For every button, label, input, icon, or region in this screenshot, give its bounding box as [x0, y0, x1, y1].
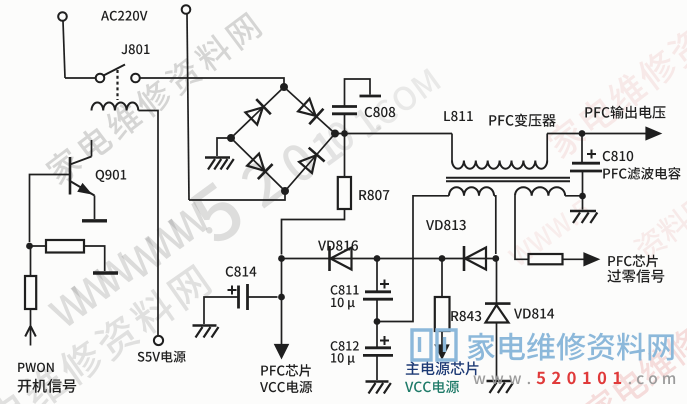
label Q901 [96, 170, 127, 182]
diode VD814 [485, 259, 511, 380]
capacitor C808 [332, 79, 381, 134]
label C810 [603, 151, 633, 161]
wire PFC output [582, 133, 647, 135]
bridge frame [231, 87, 335, 191]
label VD816 [318, 240, 358, 250]
resistor R807 [282, 134, 352, 255]
label VCC电源 (PFC) [260, 381, 312, 394]
node C814 [278, 294, 285, 301]
label J801 [121, 44, 149, 54]
diode VD816 [330, 246, 352, 271]
diode VD813 [464, 246, 486, 271]
terminal AC input 1 [58, 12, 67, 78]
terminal S5V [154, 336, 163, 345]
node base divider [26, 243, 33, 250]
transistor Q901 [70, 140, 95, 219]
watermark pink diagonal right edge [631, 189, 687, 263]
ground below C810 [570, 211, 597, 223]
node bridge top [280, 83, 288, 91]
capacitor C811 [363, 259, 393, 322]
label 过零信号 [607, 269, 664, 282]
node C811-C812 [374, 318, 381, 325]
watermark blue icon [412, 330, 456, 360]
watermark pink www mid [507, 199, 592, 268]
label R807 [359, 190, 389, 200]
resistor PWON vertical [25, 246, 36, 326]
label 10u (C812) [331, 353, 355, 365]
node bridge left [227, 134, 235, 142]
node bridge right [331, 130, 339, 138]
label PFC芯片 (zero-cross) [608, 255, 658, 268]
ground below emitter [82, 219, 107, 222]
watermark blue 家电维修资料网 [468, 333, 674, 361]
label L811 [444, 111, 473, 121]
watermark gray diagonal text 1 [42, 10, 263, 187]
label C814 [226, 266, 257, 276]
label S5V电源 [138, 351, 186, 363]
label C811 [331, 285, 359, 295]
terminal AC input 2 [182, 5, 191, 200]
label C812 [331, 341, 359, 351]
label PFC芯片 (VCC) [261, 364, 311, 377]
transformer right secondary [515, 187, 583, 259]
watermark gray diagonal text 3 [0, 262, 213, 409]
label PFC滤波电容 [603, 167, 680, 180]
wire PFC VCC down [281, 259, 283, 345]
wire C810 to ground [582, 196, 584, 210]
label R843 [451, 311, 481, 321]
label PFC输出电压 [585, 106, 665, 119]
node C811 top [374, 255, 381, 262]
node VCC left [278, 255, 285, 262]
ground bridge AC side [205, 158, 234, 170]
resistor R843 [435, 259, 450, 346]
relay coil J801 [92, 103, 159, 336]
watermark pink diagonal bottom right [580, 263, 687, 409]
inductor L811 primary [452, 134, 582, 169]
resistor base-h [30, 240, 105, 271]
label VD814 [514, 308, 554, 318]
label PWON [18, 363, 54, 373]
node PFC output [579, 130, 586, 137]
transformer core [446, 178, 570, 181]
wire VCC rail [282, 258, 496, 260]
wire main DC line [335, 133, 452, 135]
label AC220V [101, 11, 148, 21]
node R843 top [439, 255, 446, 262]
ground below h-resistor [93, 271, 118, 274]
arrow PFC VCC [276, 345, 288, 357]
node VD814 top [492, 255, 499, 262]
watermark gray diagonal text 2 [47, 68, 441, 329]
wire AC2 to bridge bottom [189, 191, 285, 200]
label VCC电源 (main) [405, 380, 459, 393]
capacitor C810 [570, 134, 602, 197]
arrow PWON input [25, 326, 36, 346]
node bridge bottom [281, 187, 289, 195]
arrow main VCC [436, 346, 448, 358]
wire Q901 base [30, 175, 71, 243]
label PFC变压器 [489, 114, 555, 127]
node C810 bottom [579, 193, 586, 200]
label 主电源芯片 [406, 361, 479, 375]
label 开机信号 [18, 379, 76, 393]
node main C808 [341, 130, 348, 137]
bridge diode bottom-left [247, 154, 272, 179]
label VD813 [426, 220, 466, 230]
wire bridge left to ground [217, 138, 231, 156]
bridge diode top-left [245, 99, 270, 124]
label C808 [365, 107, 395, 117]
transformer left secondary [377, 187, 496, 321]
arrow zero-cross [585, 254, 598, 265]
label 10u (C811) [331, 298, 355, 310]
ground below C814 [193, 326, 219, 338]
bridge diode bottom-right [299, 148, 324, 173]
capacitor C814 [204, 284, 278, 324]
resistor zero-cross [529, 254, 587, 264]
ground below VD814 [487, 381, 514, 393]
watermark pink diagonal top right [543, 0, 687, 161]
arrow PFC output [647, 128, 660, 139]
bridge diode top-right [298, 99, 323, 124]
ground below C812 [366, 382, 391, 394]
capacitor C812 [363, 322, 393, 381]
watermark url www.520101.com [473, 372, 675, 385]
switch J801 [65, 65, 140, 101]
node main second [331, 130, 338, 137]
wire switch to bridge top [140, 78, 284, 86]
